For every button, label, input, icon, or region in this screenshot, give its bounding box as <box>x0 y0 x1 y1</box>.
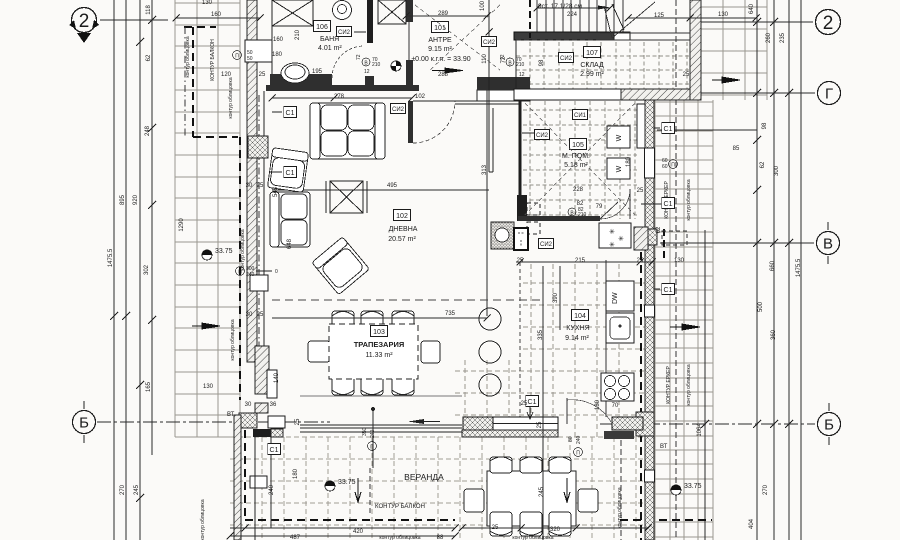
armchair rotated 45 <box>312 237 370 295</box>
washing machine W2 <box>607 158 630 179</box>
down arrows veranda <box>355 478 361 502</box>
room 106 banya label <box>314 21 331 32</box>
svg-text:30: 30 <box>246 312 253 318</box>
svg-text:118: 118 <box>146 5 152 15</box>
svg-text:9.14 m²: 9.14 m² <box>565 335 589 342</box>
mpom door leaf <box>600 202 618 219</box>
svg-text:640: 640 <box>749 3 755 14</box>
antre bottom wall <box>477 77 530 90</box>
living top wall lines <box>413 101 520 104</box>
svg-text:360: 360 <box>771 329 777 340</box>
kitchen sink unit <box>606 313 634 343</box>
svg-text:130: 130 <box>674 258 685 264</box>
kitchen top counter sink box <box>514 228 528 250</box>
P60 marker right wall <box>662 158 678 170</box>
svg-text:270: 270 <box>763 484 769 495</box>
bar stools <box>479 308 501 396</box>
svg-text:165: 165 <box>146 381 152 392</box>
svg-text:контур облицовка: контур облицовка <box>200 499 206 540</box>
svg-text:210: 210 <box>516 62 525 68</box>
level mark circle antre <box>391 61 401 71</box>
svg-text:C1: C1 <box>528 399 537 406</box>
svg-text:160: 160 <box>273 37 284 43</box>
veranda table horizontal <box>487 471 576 526</box>
left wall window sill SI2 box <box>248 136 268 158</box>
svg-text:20.57 m²: 20.57 m² <box>388 236 416 243</box>
svg-text:195: 195 <box>312 69 323 75</box>
entrance door swing <box>604 2 655 38</box>
kontur oblitsovka dashed right <box>675 0 677 540</box>
svg-text:50: 50 <box>247 56 253 62</box>
axis line 2-2 top <box>100 20 813 22</box>
dining chair right <box>421 341 440 363</box>
svg-text:240: 240 <box>576 435 582 444</box>
svg-text:Г: Г <box>825 86 833 103</box>
bath door swing arc <box>332 46 364 78</box>
svg-text:КОНТУР БАЛКОН: КОНТУР БАЛКОН <box>375 504 425 510</box>
svg-text:30: 30 <box>246 183 253 189</box>
svg-text:62: 62 <box>760 161 766 168</box>
dashed leader near balkon label <box>369 468 371 515</box>
contour dash above stair <box>529 0 531 38</box>
svg-text:СИ2: СИ2 <box>540 242 553 248</box>
svg-text:25: 25 <box>637 188 644 194</box>
svg-text:62: 62 <box>146 54 152 61</box>
porch tile grid top right <box>701 0 767 100</box>
svg-text:350: 350 <box>362 427 368 436</box>
shower cabin with X <box>272 0 313 26</box>
svg-text:130: 130 <box>718 12 729 18</box>
svg-text:СКЛАД: СКЛАД <box>580 62 604 69</box>
svg-text:СИ2: СИ2 <box>392 107 405 113</box>
veranda dim line vertical 245 <box>542 437 544 540</box>
svg-text:КУХНЯ: КУХНЯ <box>566 325 589 332</box>
svg-text:0: 0 <box>275 269 278 275</box>
mpom left wall <box>519 100 522 196</box>
svg-text:W: W <box>616 165 623 172</box>
svg-text:210: 210 <box>372 62 381 68</box>
svg-text:25: 25 <box>537 421 543 428</box>
svg-text:C1: C1 <box>664 287 673 294</box>
svg-text:160: 160 <box>211 12 222 18</box>
svg-text:228: 228 <box>573 187 584 193</box>
svg-text:120: 120 <box>221 72 232 78</box>
svg-text:ДНЕВНА: ДНЕВНА <box>389 226 418 233</box>
svg-text:✳: ✳ <box>618 235 624 243</box>
washing machine W1 <box>607 126 630 148</box>
bath bottom wall <box>266 85 419 91</box>
bay dark bar <box>253 429 271 437</box>
svg-text:70: 70 <box>612 403 619 409</box>
svg-text:30: 30 <box>245 402 252 408</box>
svg-text:П: П <box>370 445 374 451</box>
P300 window marker left <box>236 266 279 278</box>
svg-text:260: 260 <box>766 32 772 43</box>
svg-text:ВЕРАНДА: ВЕРАНДА <box>404 472 444 482</box>
table with X <box>326 181 367 213</box>
svg-text:210: 210 <box>578 212 587 218</box>
mpom right wall column <box>637 104 647 148</box>
left exterior wall hatched <box>247 0 257 40</box>
svg-text:9.15 m²: 9.15 m² <box>428 46 452 53</box>
svg-text:1064: 1064 <box>697 423 703 437</box>
svg-text:АНТРЕ: АНТРЕ <box>428 37 452 44</box>
door marker B82 mpom <box>568 207 587 218</box>
svg-text:Б: Б <box>79 415 89 432</box>
dim line 495 <box>272 189 489 191</box>
level 33.75 marker bottom middle <box>325 479 356 491</box>
terrace tile grid right lower <box>655 100 713 540</box>
svg-text:248: 248 <box>145 125 151 136</box>
bath sink oval <box>281 63 309 83</box>
door marker B70 sklad <box>500 54 525 68</box>
svg-text:98: 98 <box>539 59 545 66</box>
svg-text:278: 278 <box>334 94 345 100</box>
faint line above bottom wall <box>300 395 462 397</box>
svg-text:ТРАПЕЗАРИЯ: ТРАПЕЗАРИЯ <box>354 340 405 349</box>
svg-text:104: 104 <box>574 313 586 320</box>
level 33.75 marker bottom right <box>671 483 702 495</box>
room 102 dnevna label <box>394 210 411 221</box>
axis line V <box>660 242 814 244</box>
svg-text:895: 895 <box>120 194 126 205</box>
P350 window marker bottom <box>362 427 377 450</box>
svg-text:82: 82 <box>577 201 584 207</box>
svg-text:контур облицовка: контур облицовка <box>228 77 234 118</box>
kitchen dim vertical line <box>486 90 488 316</box>
svg-text:C1: C1 <box>286 170 295 177</box>
top dimension line with ticks <box>176 8 756 18</box>
svg-text:2: 2 <box>79 11 90 32</box>
kitchen hatch column near counter <box>634 227 648 250</box>
svg-text:Б: Б <box>824 417 834 434</box>
svg-text:ВТ: ВТ <box>227 412 235 418</box>
svg-text:2: 2 <box>823 13 834 34</box>
bath right wall stub <box>406 0 413 22</box>
svg-text:245: 245 <box>134 484 140 495</box>
svg-text:500: 500 <box>758 301 764 312</box>
svg-text:72: 72 <box>501 56 507 63</box>
svg-text:33.75: 33.75 <box>215 248 233 255</box>
svg-text:180: 180 <box>595 399 601 410</box>
zoning dashed line <box>272 299 540 301</box>
axis line B dashed <box>97 422 815 424</box>
svg-text:СИ2: СИ2 <box>560 56 573 62</box>
living door swing arc <box>413 101 455 143</box>
dim extension line right <box>657 129 757 131</box>
bottom window wall left segment <box>300 425 462 432</box>
svg-text:25: 25 <box>257 183 264 189</box>
svg-text:ВТ: ВТ <box>660 444 668 450</box>
antre bottom wall lower part <box>477 90 530 101</box>
sklad floor tile grid <box>516 42 692 89</box>
right exterior wall top hatched <box>690 0 701 100</box>
window sill arrow left <box>408 419 424 424</box>
svg-text:404: 404 <box>749 518 755 529</box>
svg-text:П: П <box>235 54 239 60</box>
svg-text:735: 735 <box>445 311 456 317</box>
dim line 735 dining <box>272 315 491 322</box>
toilet <box>333 1 352 20</box>
svg-text:11.33 m²: 11.33 m² <box>365 352 393 359</box>
axis circle V right <box>817 222 840 264</box>
bottom dimension lines <box>230 528 648 536</box>
svg-text:КОНТУР БАЛКОН: КОНТУР БАЛКОН <box>210 39 216 81</box>
svg-text:210: 210 <box>295 29 301 40</box>
m.pom floor tile grid <box>523 101 637 219</box>
svg-text:80: 80 <box>568 436 574 442</box>
dining chairs top <box>332 311 414 338</box>
bottom wall right hatch piece <box>604 431 634 439</box>
left dimension lines <box>114 0 152 540</box>
C1 leader lines <box>270 112 661 419</box>
antre dashed diagonals <box>415 5 500 70</box>
svg-text:224: 224 <box>567 12 578 18</box>
door marker B70 bath <box>356 54 381 68</box>
svg-text:контур облицовка: контур облицовка <box>240 229 246 270</box>
svg-text:контур облицовка: контур облицовка <box>185 36 191 77</box>
kontur balkon dashed contour top-left <box>184 27 238 137</box>
svg-text:12: 12 <box>364 69 370 75</box>
kontur oblitsovka thin dash-dot left <box>184 27 186 137</box>
svg-text:контур облицовка: контур облицовка <box>686 179 692 220</box>
svg-text:110: 110 <box>482 54 488 64</box>
kitchen DW <box>606 281 634 311</box>
svg-text:420: 420 <box>353 529 364 535</box>
kitchen + veranda interior dashed grid <box>455 264 645 437</box>
veranda tile grid bottom <box>230 437 648 540</box>
svg-text:5.18 m²: 5.18 m² <box>564 162 588 169</box>
svg-text:25: 25 <box>295 418 301 425</box>
svg-text:106: 106 <box>316 24 328 31</box>
P50 column marker <box>233 50 253 62</box>
inner contour dash-dot along left wall <box>258 95 260 358</box>
svg-text:П: П <box>576 451 580 457</box>
bottom heavy wall C1 segment <box>463 417 558 430</box>
svg-text:C1: C1 <box>286 110 295 117</box>
C1 labels <box>284 107 297 118</box>
svg-text:25: 25 <box>259 72 266 78</box>
svg-text:245: 245 <box>539 486 545 497</box>
svg-text:495: 495 <box>387 183 398 189</box>
armchair left 1 <box>267 148 308 193</box>
right dimension lines <box>705 0 801 540</box>
stair treads <box>537 0 623 32</box>
svg-text:215: 215 <box>575 258 586 264</box>
bath partition black bar <box>367 0 373 43</box>
svg-text:БАНЯ: БАНЯ <box>320 36 339 43</box>
sklad left wall line <box>515 40 517 89</box>
svg-text:контур облицовка: контур облицовка <box>686 364 692 405</box>
svg-text:102: 102 <box>415 94 426 100</box>
svg-text:СИ2: СИ2 <box>483 40 496 46</box>
svg-text:DW: DW <box>612 292 619 304</box>
left wall lower blocks <box>250 275 268 291</box>
svg-text:25: 25 <box>521 401 528 407</box>
svg-text:25: 25 <box>257 312 264 318</box>
veranda chair right <box>578 489 598 512</box>
svg-text:СИ2: СИ2 <box>338 30 351 36</box>
sofa three-seat top <box>310 103 385 159</box>
svg-text:33.75: 33.75 <box>338 479 356 486</box>
svg-text:240: 240 <box>269 484 275 495</box>
svg-text:130: 130 <box>202 0 213 6</box>
room 103 trapezariya label <box>371 326 388 337</box>
svg-text:105: 105 <box>572 142 584 149</box>
veranda chairs bottom row <box>490 512 571 536</box>
svg-text:СИ1: СИ1 <box>574 113 587 119</box>
balcony tile grid left <box>175 0 240 437</box>
right main wall hatched full <box>645 100 654 540</box>
svg-text:C1: C1 <box>664 126 673 133</box>
svg-text:25: 25 <box>683 72 690 78</box>
mpom door arc <box>600 189 630 219</box>
svg-text:C1: C1 <box>270 447 279 454</box>
mpom left wall bottom black segment <box>517 195 527 221</box>
svg-text:390: 390 <box>553 292 559 303</box>
antre dim line vertical <box>488 0 490 77</box>
svg-text:240: 240 <box>370 429 376 438</box>
mpom dashed diagonals <box>525 103 635 215</box>
kitchen top counter stove <box>491 222 514 249</box>
axis circle 2 right <box>816 10 841 35</box>
svg-text:72: 72 <box>356 54 362 60</box>
dim line below bath wall <box>269 95 416 102</box>
svg-text:✳: ✳ <box>609 228 615 236</box>
room 105 mpom label <box>570 139 587 150</box>
svg-text:180: 180 <box>626 156 632 167</box>
room 107 sklad label <box>584 47 601 58</box>
SI2 labels misc <box>390 104 405 114</box>
kontur oblitsovka dash inside veranda right <box>620 440 622 540</box>
svg-text:контур облицовка: контур облицовка <box>512 535 553 540</box>
kitchen stove burners <box>601 373 634 401</box>
svg-text:240: 240 <box>246 272 255 278</box>
svg-text:W: W <box>616 134 623 141</box>
svg-text:В: В <box>823 236 833 253</box>
svg-text:П: П <box>238 270 242 276</box>
svg-text:36: 36 <box>270 402 277 408</box>
left wall inner line <box>271 0 273 91</box>
axis circle 2 left <box>69 8 99 44</box>
svg-text:контур облицовка: контур облицовка <box>617 487 623 528</box>
bay window erker bottom-left walls <box>255 346 269 394</box>
veranda chairs top row <box>490 457 571 473</box>
svg-text:648: 648 <box>287 238 293 249</box>
svg-text:1290: 1290 <box>179 218 185 232</box>
left wall column P50 <box>245 40 272 62</box>
svg-text:60: 60 <box>662 164 668 170</box>
P350 leader line with dot <box>372 410 374 468</box>
svg-text:300: 300 <box>774 165 780 176</box>
axis circle G right <box>818 82 841 105</box>
svg-text:288: 288 <box>438 72 449 78</box>
sofa two-seat left vertical <box>270 192 310 247</box>
si2 leader mpom <box>522 132 534 134</box>
mpom bottom wall <box>518 216 600 221</box>
veranda chair left <box>464 489 484 512</box>
svg-text:СИ2: СИ2 <box>536 133 549 139</box>
living door leaf stub <box>408 101 413 143</box>
svg-text:102: 102 <box>396 213 408 220</box>
stairwell rail lines <box>489 77 493 172</box>
bay 240 dim line <box>270 437 272 528</box>
svg-text:✳: ✳ <box>609 241 615 249</box>
bay inner wall line <box>254 437 256 540</box>
svg-text:270: 270 <box>120 484 126 495</box>
P80 marker bottom right <box>568 435 583 456</box>
kitchen right counter run <box>605 260 607 417</box>
dining chairs bottom <box>332 366 414 395</box>
svg-text:140: 140 <box>274 372 280 383</box>
svg-text:М. ПОМ.: М. ПОМ. <box>562 153 590 160</box>
kitchen counter top cabinet stars <box>599 223 631 249</box>
stair dim arrow <box>598 6 610 10</box>
svg-text:85: 85 <box>733 146 740 152</box>
svg-text:100: 100 <box>480 0 486 11</box>
erker dash segment and dashed box right wall <box>663 229 665 262</box>
svg-text:12: 12 <box>519 72 525 78</box>
dining table dashed <box>329 324 418 379</box>
svg-text:660: 660 <box>770 260 776 271</box>
svg-text:2.99 m²: 2.99 m² <box>580 71 604 78</box>
right wall window blocks <box>645 148 655 178</box>
svg-text:1475.5: 1475.5 <box>796 258 802 277</box>
kitchen dim vertical chains <box>542 266 544 437</box>
axis circle B left <box>73 401 96 443</box>
svg-text:180: 180 <box>293 468 299 479</box>
stair direction line <box>612 4 624 30</box>
axis line G <box>688 92 815 94</box>
svg-text:302: 302 <box>144 264 150 275</box>
svg-text:контур облицовка: контур облицовка <box>230 319 236 360</box>
bay window sill white <box>268 416 285 428</box>
room 104 kuhnya label <box>572 310 589 321</box>
svg-text:548: 548 <box>273 186 279 197</box>
svg-text:4.01 m²: 4.01 m² <box>318 45 342 52</box>
kontur erker dashed contour left <box>240 137 455 520</box>
wardrobe with X bath right <box>378 0 406 24</box>
svg-text:П: П <box>671 163 675 169</box>
svg-text:103: 103 <box>373 329 385 336</box>
dashed column squares <box>527 203 540 234</box>
dining chair left <box>308 341 330 362</box>
veranda door leaf and arc <box>566 398 568 424</box>
svg-text:КОНТУР ЕРКЕР: КОНТУР ЕРКЕР <box>666 366 672 404</box>
svg-text:33.75: 33.75 <box>684 483 702 490</box>
axis circle B right <box>818 403 841 445</box>
svg-text:920: 920 <box>133 194 139 205</box>
bottom dim ticks <box>227 525 652 540</box>
entrance steps top right <box>600 33 690 40</box>
svg-text:101: 101 <box>434 25 446 32</box>
svg-text:62: 62 <box>656 226 662 233</box>
room 101 antre label <box>432 22 449 33</box>
bay lower hatch strip outer <box>234 415 241 540</box>
kontur erker dashed contour right <box>620 252 712 540</box>
svg-text:180: 180 <box>272 52 283 58</box>
sklad top dashed boundary <box>516 39 692 41</box>
svg-text:107: 107 <box>586 50 598 57</box>
svg-text:C1: C1 <box>664 201 673 208</box>
svg-text:235: 235 <box>780 32 786 43</box>
kitchen dim line 215 <box>516 259 656 266</box>
direction arrows <box>192 68 740 330</box>
kitchen bar dashed line <box>519 262 521 425</box>
svg-text:313: 313 <box>482 164 488 175</box>
svg-text:130: 130 <box>203 384 214 390</box>
sklad bottom wall <box>514 89 621 100</box>
